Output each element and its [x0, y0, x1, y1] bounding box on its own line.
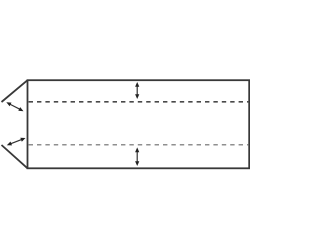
bottom vertical double arrow — [135, 147, 139, 166]
rectangle box outline — [28, 80, 250, 168]
top fold dashed line — [29, 101, 249, 103]
top flap double arrow — [6, 102, 23, 111]
bottom-left flap diagonal — [2, 145, 28, 168]
bottom flap double arrow — [7, 138, 26, 146]
top vertical double arrow — [135, 82, 139, 99]
bottom fold dashed line — [29, 144, 249, 146]
top-left flap diagonal — [2, 80, 28, 102]
